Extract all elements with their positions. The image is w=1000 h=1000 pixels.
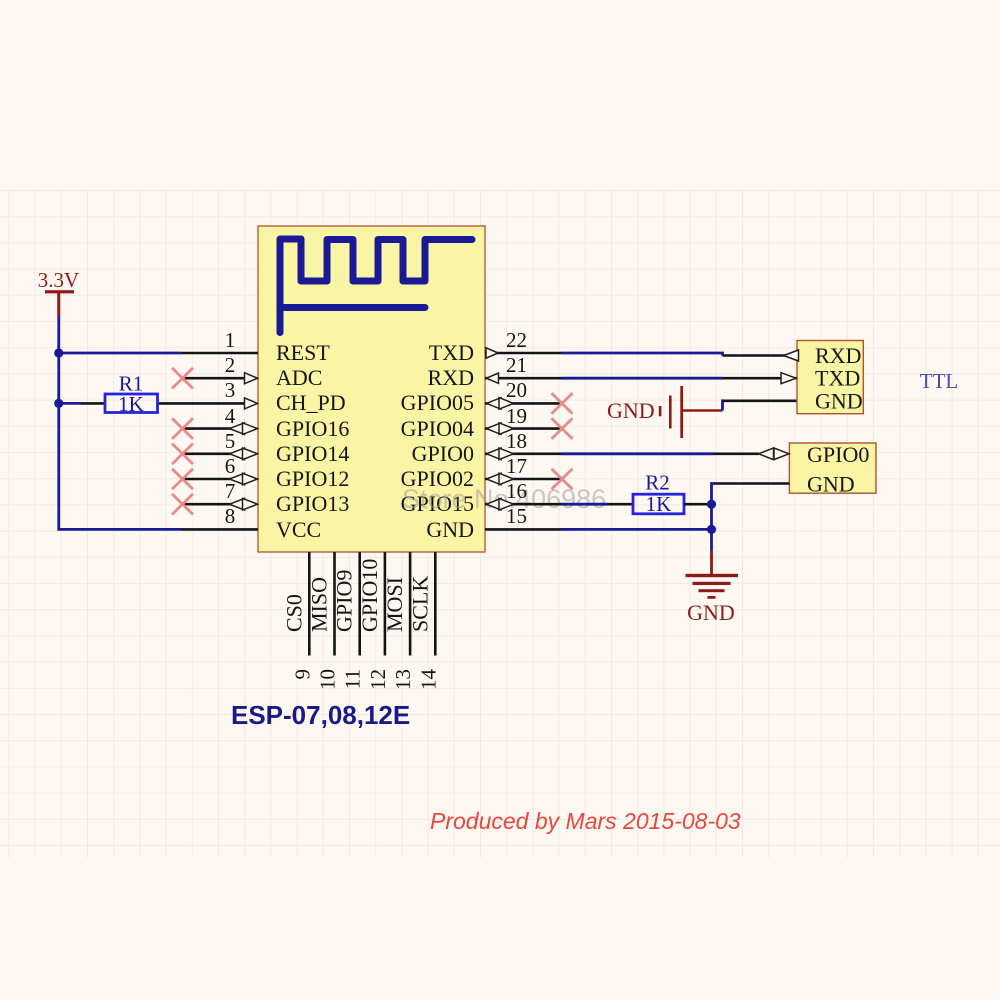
svg-text:GPIO12: GPIO12	[276, 466, 349, 491]
svg-text:1: 1	[225, 328, 236, 352]
arrow bidir pin20	[487, 398, 514, 410]
bottom pin 12 GPIO10 lead	[384, 552, 387, 656]
svg-text:R2: R2	[645, 471, 670, 495]
bottom pin numbers 9-14 rotated	[290, 669, 440, 691]
svg-text:CS0: CS0	[281, 594, 306, 632]
pin 2 ADC lead	[183, 377, 247, 380]
pin 17 GPIO02 lead	[485, 478, 561, 481]
svg-text:18: 18	[506, 429, 527, 453]
pin 20 GPIO05 lead	[485, 402, 561, 405]
svg-text:15: 15	[506, 504, 527, 528]
no-connect X pin4	[172, 418, 193, 439]
svg-text:GND: GND	[687, 600, 735, 625]
no-connect X pin2	[172, 368, 193, 389]
ground symbol GND	[686, 550, 739, 625]
resistor R2	[561, 471, 712, 517]
wire rail to pin1	[59, 352, 182, 355]
svg-text:4: 4	[225, 404, 236, 428]
svg-text:RXD: RXD	[428, 365, 474, 390]
pin 16 GPIO15 lead	[485, 503, 561, 506]
svg-text:13: 13	[391, 669, 415, 690]
pin 6 GPIO12 lead	[183, 478, 232, 481]
svg-text:9: 9	[290, 669, 314, 680]
junction dot rail/pin1	[54, 348, 63, 357]
pin name labels right column	[401, 340, 474, 542]
svg-text:19: 19	[506, 404, 527, 428]
svg-text:GPIO14: GPIO14	[276, 441, 349, 466]
svg-text:MISO: MISO	[307, 577, 332, 632]
svg-text:TXD: TXD	[815, 366, 860, 391]
connector J2 GPIO0/GND	[789, 442, 876, 497]
svg-text:CH_PD: CH_PD	[276, 390, 346, 415]
arrow bidir pin4	[230, 423, 258, 435]
wire pin18 GPIO0 to connector J2	[561, 452, 714, 455]
svg-text:6: 6	[225, 454, 236, 478]
arrow pin22 out	[486, 348, 498, 358]
arrow bidir pin17	[487, 473, 514, 485]
svg-text:1K: 1K	[118, 392, 144, 416]
svg-text:GPIO13: GPIO13	[276, 491, 349, 516]
arrow into J1 RXD	[784, 350, 799, 361]
arrow bidir pin19	[487, 423, 514, 435]
wire pin15 GND	[561, 528, 712, 531]
svg-text:RXD: RXD	[815, 343, 861, 368]
svg-text:TTL: TTL	[920, 369, 958, 393]
svg-text:GND: GND	[807, 472, 855, 497]
arrow bidir pin18	[487, 448, 514, 460]
svg-text:Produced by Mars 2015-08-03: Produced by Mars 2015-08-03	[430, 808, 741, 834]
arrow bidir pin7	[230, 498, 258, 510]
wire 3.3V rail vertical	[59, 317, 182, 530]
wire J2 GND down	[716, 482, 789, 485]
arrow out J1 TXD	[781, 373, 796, 384]
svg-text:Store No:406986: Store No:406986	[402, 484, 606, 514]
pin 15 GND lead	[485, 528, 561, 531]
bottom pin 13 MOSI lead	[409, 552, 412, 656]
svg-text:8: 8	[225, 504, 236, 528]
bottom pin 10 MISO lead	[333, 552, 336, 656]
junction dot pin15/GND wire	[707, 525, 716, 534]
svg-text:SCLK: SCLK	[407, 576, 432, 632]
arrow bidir pin16	[487, 498, 514, 510]
IC body U1 ESP module	[258, 226, 485, 552]
svg-text:REST: REST	[276, 340, 330, 365]
pin 22 TXD lead	[485, 352, 561, 355]
wire pin21 RXD to TXD connector	[561, 377, 723, 380]
svg-text:1K: 1K	[646, 492, 672, 516]
svg-text:GND: GND	[426, 517, 474, 542]
svg-text:GPIO04: GPIO04	[401, 416, 474, 441]
pin 18 GPIO0 lead	[485, 452, 561, 455]
svg-text:2: 2	[225, 353, 236, 377]
svg-text:GPIO9: GPIO9	[332, 570, 357, 632]
svg-text:GPIO16: GPIO16	[276, 416, 349, 441]
no-connect X pin19	[552, 418, 573, 439]
pin numbers 1-8	[225, 328, 236, 528]
svg-text:7: 7	[225, 479, 236, 503]
wire pin22 TXD to RXD connector	[561, 353, 723, 356]
junction dot rail/R1	[54, 399, 63, 408]
no-connect X pin5	[172, 444, 193, 465]
svg-text:GPIO0: GPIO0	[412, 441, 474, 466]
pin 8 VCC lead	[182, 528, 259, 531]
no-connect X pin7	[172, 494, 193, 515]
pin 3 CH_PD lead	[158, 402, 247, 405]
svg-text:GPIO10: GPIO10	[357, 559, 382, 632]
svg-text:16: 16	[506, 479, 527, 503]
connector J1 RXD/TXD/GND	[797, 341, 863, 414]
svg-text:17: 17	[506, 454, 527, 478]
wire rail to R1	[59, 402, 81, 405]
wire GND port to connector	[723, 401, 725, 411]
pin numbers 22-15	[506, 328, 527, 528]
svg-text:20: 20	[506, 378, 527, 402]
svg-text:MOSI: MOSI	[382, 577, 407, 632]
pin 19 GPIO04 lead	[485, 427, 561, 430]
pin 7 GPIO13 lead	[183, 503, 232, 506]
svg-text:11: 11	[341, 669, 365, 689]
arrow pin21 in	[487, 373, 499, 383]
bottom pin 11 GPIO9 lead	[358, 552, 361, 656]
no-connect X pin20	[552, 393, 573, 414]
arrow bidir pin5	[230, 448, 258, 460]
svg-text:3: 3	[225, 378, 236, 402]
svg-text:12: 12	[366, 669, 390, 690]
svg-text:21: 21	[506, 353, 527, 377]
resistor R1	[81, 372, 158, 416]
bottom pin 14 SCLK lead	[434, 552, 437, 656]
pin 4 GPIO16 lead	[183, 427, 232, 430]
pin name labels left column	[276, 340, 349, 542]
power port 3.3V	[38, 268, 79, 317]
svg-text:22: 22	[506, 328, 527, 352]
svg-text:GPIO05: GPIO05	[401, 390, 474, 415]
svg-text:14: 14	[416, 669, 440, 691]
svg-text:ADC: ADC	[276, 365, 322, 390]
arrow bidir J2 GPIO0	[759, 448, 790, 460]
power port GND mid	[607, 386, 723, 438]
antenna symbol	[280, 239, 472, 333]
no-connect X pin6	[172, 469, 193, 490]
arrow bidir pin6	[230, 473, 258, 485]
junction dot R2/GND wire	[707, 500, 716, 509]
bottom pin 9 CS0 lead	[308, 552, 311, 656]
svg-text:GND: GND	[815, 388, 863, 413]
pin 5 GPIO14 lead	[183, 452, 232, 455]
svg-text:5: 5	[225, 429, 236, 453]
arrow pin3	[245, 398, 258, 409]
svg-text:GPIO0: GPIO0	[807, 442, 869, 467]
svg-text:GND: GND	[607, 398, 655, 423]
pin 1 REST lead	[182, 352, 259, 355]
pin 21 RXD lead	[485, 377, 561, 380]
no-connect X pin17	[552, 469, 573, 490]
svg-text:VCC: VCC	[276, 517, 321, 542]
bottom pin labels rotated	[281, 559, 432, 632]
svg-text:ESP-07,08,12E: ESP-07,08,12E	[231, 700, 410, 730]
svg-text:10: 10	[316, 669, 340, 690]
arrow pin2	[245, 373, 258, 384]
svg-text:3.3V: 3.3V	[38, 268, 79, 292]
svg-text:TXD: TXD	[429, 340, 474, 365]
